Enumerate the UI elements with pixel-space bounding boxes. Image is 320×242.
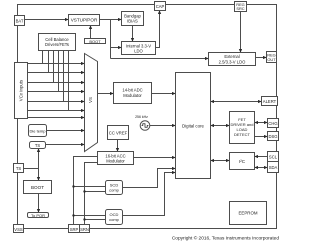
pin ALERT — [262, 97, 278, 106]
wire VC row 1 — [28, 63, 85, 65]
wire cell balance drop 6 — [68, 51, 70, 111]
svg-text:VCx Inputs: VCx Inputs — [19, 79, 24, 101]
wire Die temp to mux — [47, 130, 85, 132]
block VSTUP/POR — [69, 15, 100, 26]
pin BAT — [15, 16, 25, 26]
svg-text:comp: comp — [109, 188, 120, 193]
wire SRN sense line — [85, 163, 98, 225]
svg-text:EEPROM: EEPROM — [238, 211, 257, 216]
wire BOOT tag to VSTUP/POR — [90, 26, 92, 39]
wire I2C to SDA — [255, 167, 268, 169]
svg-text:SRC: SRC — [236, 6, 244, 11]
svg-text:TS: TS — [35, 143, 41, 148]
svg-text:BOOT: BOOT — [89, 39, 101, 44]
svg-text:SRP: SRP — [70, 227, 79, 232]
wire cell balance drop 2 — [48, 51, 50, 73]
wire SRN to OCD comp — [85, 219, 106, 221]
svg-text:Modulator: Modulator — [106, 159, 125, 164]
svg-text:Copyright © 2016, Texas Instru: Copyright © 2016, Texas Instruments Inco… — [172, 235, 280, 242]
wire Bandgap to Internal LDO — [132, 26, 134, 42]
wire cell balance drop 4 — [58, 51, 60, 92]
pin REGOUT — [267, 52, 277, 63]
pin VSS — [14, 225, 24, 233]
wire Digital core to I2C — [211, 160, 230, 162]
wire LDO feed vertical — [110, 20, 112, 59]
block Digital core — [176, 73, 211, 179]
wire SRP sense line — [74, 157, 98, 225]
pin SDA — [268, 162, 279, 173]
wire SRN to SCD comp — [85, 191, 106, 193]
wire to External LDO — [111, 58, 209, 60]
svg-text:TS: TS — [16, 166, 22, 171]
svg-text:SCL: SCL — [269, 155, 278, 160]
block EEPROM — [230, 202, 267, 225]
svg-text:IBIAS: IBIAS — [127, 19, 138, 24]
svg-text:LDO: LDO — [134, 48, 143, 53]
wire REGSRC to External LDO — [240, 12, 242, 53]
block TS — [30, 142, 46, 149]
svg-text:VS: VS — [88, 97, 93, 103]
pin SRP — [69, 225, 80, 233]
wire mux to 14-bit ADC — [98, 93, 114, 95]
wire BAT to VSTUP/POR — [25, 19, 69, 21]
wire VC row 5 — [28, 101, 85, 103]
wire VC row 4 — [28, 91, 85, 93]
wire SRP to OCD comp — [74, 215, 106, 217]
block VCx Inputs — [15, 63, 28, 119]
block I2C — [230, 153, 255, 170]
wire CC VREF to ACC — [117, 140, 119, 152]
wire cell balance drop 5 — [63, 51, 65, 102]
pin SCL — [268, 152, 279, 162]
pin CAP — [155, 2, 166, 11]
wire SCD comp to Digital core — [123, 169, 176, 188]
svg-text:BOOT: BOOT — [31, 185, 44, 190]
svg-text:ALERT: ALERT — [263, 99, 277, 104]
junction SRP-OCD — [72, 214, 74, 216]
wire TS block to mux — [46, 144, 85, 146]
svg-text:Digital core: Digital core — [182, 123, 205, 128]
svg-text:Modulator: Modulator — [123, 93, 142, 98]
pin DSG — [268, 132, 279, 141]
svg-text:Cell Balance: Cell Balance — [45, 37, 69, 42]
wire ACC to Digital core — [134, 157, 176, 159]
svg-text:VSTUP/POR: VSTUP/POR — [71, 18, 98, 23]
junction SRP-SCD — [72, 185, 74, 187]
wire External LDO to REGOUT — [256, 57, 267, 59]
block Internal 3.3-V LDO — [122, 42, 156, 55]
svg-text:CC VREF: CC VREF — [109, 130, 128, 135]
tag BOOT — [85, 39, 106, 44]
junction SRN-OCD — [83, 218, 85, 220]
svg-text:2.5/3.3-V LDO: 2.5/3.3-V LDO — [219, 59, 247, 64]
svg-text:BAT: BAT — [16, 18, 24, 23]
oscillator 256 kHz — [135, 115, 150, 131]
wire BOOT block to To POR — [38, 194, 40, 213]
svg-text:comp: comp — [109, 217, 120, 222]
svg-text:VSS: VSS — [14, 227, 23, 232]
svg-text:DSG: DSG — [268, 134, 277, 139]
svg-text:Drivers/FETs: Drivers/FETs — [45, 42, 69, 47]
svg-text:I²C: I²C — [239, 159, 246, 164]
block Die temp — [29, 125, 47, 137]
wire oscillator to Digital core — [150, 125, 176, 127]
wire Digital core to FET DRIVER — [211, 125, 230, 127]
block CC VREF — [108, 126, 129, 140]
block Bandgap IBIAS — [122, 12, 144, 26]
block FET DRIVER and LOAD DETECT — [230, 112, 255, 144]
pin SRN — [80, 225, 90, 233]
svg-text:OUT: OUT — [267, 57, 276, 62]
wire Digital core to ALERT — [211, 101, 262, 103]
block OCD comp — [106, 210, 123, 225]
svg-text:DETECT: DETECT — [234, 132, 251, 137]
mux — [85, 54, 98, 152]
svg-text:256 kHz: 256 kHz — [135, 115, 148, 119]
block 16-bit ACC Modulator — [98, 152, 134, 165]
wire Internal LDO to CAP — [156, 11, 160, 48]
svg-text:SRN: SRN — [80, 227, 89, 232]
wire VC row 6 — [28, 110, 85, 112]
block External 2.5/3.3-V LDO — [209, 53, 256, 66]
wire to Internal LDO — [111, 47, 122, 49]
wire TS pin riser — [24, 149, 39, 181]
wire SRP to SCD comp — [74, 186, 106, 188]
wire I2C to SCL — [255, 156, 268, 158]
wire cell balance drop 3 — [53, 51, 55, 83]
block 14-bit ADC Modulator — [114, 83, 152, 104]
wire FET DRIVER to CHG — [255, 122, 268, 124]
copyright — [172, 235, 280, 242]
wire VSTUP/POR to Bandgap IBIAS — [100, 19, 122, 21]
chip boundary — [18, 5, 277, 229]
svg-text:CAP: CAP — [156, 4, 165, 9]
wire VC row 7 — [28, 117, 85, 119]
tag To POR — [28, 213, 49, 218]
block SCD comp — [106, 181, 123, 195]
wire OCD comp to Digital core — [123, 173, 176, 216]
svg-text:Die temp: Die temp — [29, 128, 46, 133]
pin CHG — [268, 119, 279, 128]
wire FET DRIVER to DSG — [255, 136, 268, 138]
pin TS — [14, 164, 24, 173]
svg-text:SDA: SDA — [269, 165, 278, 170]
wire VC row 2 — [28, 72, 85, 74]
wire VC row 3 — [28, 82, 85, 84]
wire cell balance drop 1 — [42, 51, 44, 64]
svg-text:To POR: To POR — [31, 213, 45, 218]
junction SRN-SCD — [83, 190, 85, 192]
pin REGSRC — [235, 2, 247, 12]
svg-text:CHG: CHG — [268, 121, 277, 126]
block Cell Balance Drivers/FETs — [39, 34, 76, 51]
block BOOT — [24, 181, 52, 194]
wire ADC to Digital core — [152, 93, 176, 95]
